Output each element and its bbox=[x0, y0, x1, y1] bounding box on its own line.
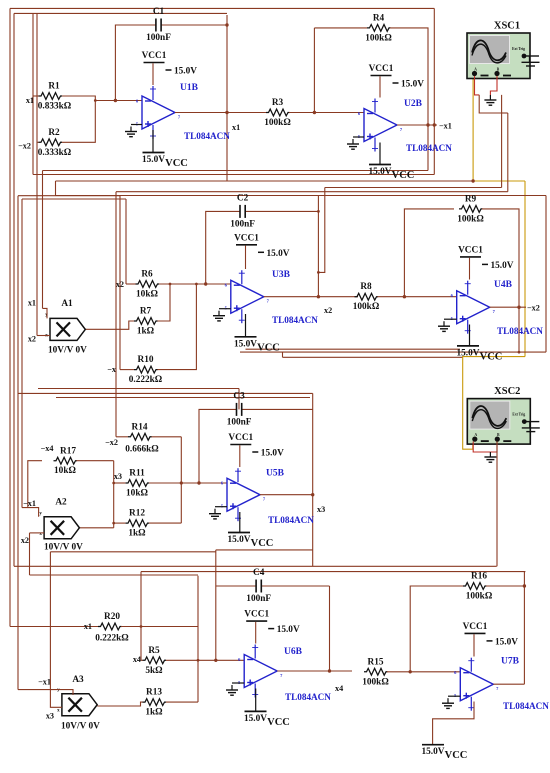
svg-text:TL084ACN: TL084ACN bbox=[268, 515, 314, 525]
wire rail y=357.3 bbox=[283, 356, 463, 358]
wire yellow drop x=525 bbox=[524, 181, 526, 357]
op-amp U3B bbox=[225, 270, 270, 323]
wire C4 left lead bbox=[216, 585, 256, 587]
svg-text:x3: x3 bbox=[114, 472, 122, 481]
svg-text:VCC1: VCC1 bbox=[234, 233, 259, 243]
wire A3 y input bbox=[18, 690, 73, 695]
wire right drop x=434 bbox=[433, 8, 435, 174]
svg-text:x1: x1 bbox=[28, 299, 36, 308]
svg-text:100nF: 100nF bbox=[230, 219, 255, 229]
resistor R4 bbox=[365, 13, 392, 43]
wire R17 right lead bbox=[77, 460, 114, 462]
wire R4 right to output bbox=[390, 28, 428, 171]
resistor R17 bbox=[54, 447, 77, 477]
svg-text:−x1: −x1 bbox=[38, 678, 51, 687]
svg-text:−x2: −x2 bbox=[18, 142, 31, 151]
multiplier A1 bbox=[45, 313, 85, 341]
ground U6B + input bbox=[226, 685, 238, 695]
svg-text:C1: C1 bbox=[153, 7, 165, 17]
ground below XSC1 bbox=[484, 95, 496, 105]
wire U3B output bbox=[264, 296, 358, 298]
svg-text:0.833kΩ: 0.833kΩ bbox=[38, 102, 72, 112]
wire A3 x input bbox=[50, 552, 62, 708]
svg-text:A: A bbox=[474, 433, 477, 437]
wire rail y=388.5 bbox=[38, 388, 239, 390]
wire A3 out to R13 bbox=[97, 702, 142, 706]
resistor R11 leads bbox=[114, 482, 126, 484]
svg-text:VCC: VCC bbox=[480, 351, 503, 362]
svg-text:15.0V: 15.0V bbox=[244, 714, 267, 724]
svg-text:VCC: VCC bbox=[267, 717, 290, 728]
resistor R5 leads bbox=[141, 659, 143, 661]
svg-text:−x2: −x2 bbox=[527, 304, 540, 313]
svg-text:100nF: 100nF bbox=[246, 594, 271, 604]
op-amp U2B bbox=[358, 99, 403, 152]
VCC1 supply for U1B bbox=[142, 51, 198, 77]
wire U1B output bbox=[175, 112, 266, 114]
ground U2B + input bbox=[347, 139, 359, 149]
wire input to U1B minus bbox=[95, 100, 142, 102]
op-amp U4B bbox=[451, 281, 496, 334]
wire A2 y input bbox=[22, 508, 39, 517]
wire R9 left drop bbox=[404, 209, 454, 297]
svg-text:U5B: U5B bbox=[266, 469, 285, 479]
wire XSC2 A to ground bbox=[473, 442, 490, 453]
wire drop x=198 bbox=[197, 576, 199, 702]
wire A1 y input bbox=[43, 308, 48, 318]
wire R5 to U6B minus bbox=[216, 659, 244, 661]
VCC supply for U6B bbox=[244, 711, 290, 728]
svg-text:R3: R3 bbox=[272, 98, 284, 108]
wire x2 drop to R6 bbox=[125, 199, 127, 284]
wire drop x=312.7 x3 feedback bbox=[312, 393, 314, 566]
op-amp U5B bbox=[221, 468, 266, 521]
oscilloscope XSC1 bbox=[467, 21, 540, 79]
svg-text:x2: x2 bbox=[21, 536, 29, 545]
VCC1 supply for U4B bbox=[458, 245, 514, 271]
svg-text:R14: R14 bbox=[131, 422, 147, 432]
wire left bundle x=37 bbox=[36, 13, 38, 335]
svg-text:1kΩ: 1kΩ bbox=[128, 529, 146, 539]
svg-text:VCC: VCC bbox=[257, 342, 280, 353]
resistor R7 leads bbox=[157, 284, 170, 321]
VCC1 supply for U2B bbox=[369, 64, 425, 90]
wire U6B output bbox=[277, 670, 352, 672]
wire XSC1 B to ground bbox=[490, 76, 497, 95]
wire ground stub U7B bbox=[448, 695, 460, 697]
svg-text:VCC1: VCC1 bbox=[369, 64, 394, 74]
wire R4 left drop bbox=[313, 28, 315, 113]
svg-text:100kΩ: 100kΩ bbox=[466, 592, 493, 602]
svg-text:15.0V: 15.0V bbox=[401, 80, 424, 90]
wire rail y=199 bbox=[22, 198, 126, 200]
svg-text:100kΩ: 100kΩ bbox=[264, 118, 291, 128]
multiplier A2 bbox=[39, 511, 79, 539]
wire rail y=566.3 bbox=[14, 565, 497, 567]
svg-text:U7B: U7B bbox=[501, 657, 520, 667]
wire U4B output bbox=[490, 306, 526, 308]
svg-text:R16: R16 bbox=[471, 572, 487, 582]
svg-text:x4: x4 bbox=[335, 684, 343, 693]
wire drop x=546 bbox=[545, 196, 547, 353]
wire XSC1 ground loop to drop bbox=[502, 112, 508, 114]
svg-text:R8: R8 bbox=[360, 282, 372, 292]
svg-text:A3: A3 bbox=[72, 675, 84, 685]
svg-text:100kΩ: 100kΩ bbox=[353, 302, 380, 312]
svg-text:R4: R4 bbox=[373, 13, 385, 23]
wire VCC1 stem U5B bbox=[239, 445, 241, 467]
svg-text:−x1: −x1 bbox=[439, 121, 452, 130]
wire A1 out to R7 bbox=[85, 321, 134, 329]
svg-text:Ext Trig: Ext Trig bbox=[512, 413, 525, 417]
svg-text:10V/V 0V: 10V/V 0V bbox=[61, 722, 100, 732]
svg-text:VCC1: VCC1 bbox=[458, 245, 483, 255]
resistor R16 bbox=[463, 572, 493, 602]
svg-text:15.0V: 15.0V bbox=[277, 625, 300, 635]
capacitor C2 bbox=[230, 193, 255, 229]
svg-text:100kΩ: 100kΩ bbox=[457, 214, 484, 224]
resistor R12 bbox=[126, 509, 149, 539]
svg-text:U4B: U4B bbox=[494, 280, 513, 290]
svg-text:0.222kΩ: 0.222kΩ bbox=[95, 634, 129, 644]
svg-text:XSC1: XSC1 bbox=[494, 21, 520, 32]
wire C4 right lead bbox=[261, 585, 329, 587]
wire VCC stem U2B bbox=[379, 143, 381, 165]
svg-text:x2: x2 bbox=[28, 335, 36, 344]
wire rail y=195.7 bbox=[18, 195, 120, 197]
wire R16 feedback vertical bbox=[523, 572, 525, 685]
wire C4 right drop bbox=[329, 586, 331, 671]
wire drop x=143.8 to R5 bbox=[140, 572, 142, 661]
wire drop x=501.6 XSC1 leg bbox=[501, 113, 503, 188]
wire U7B power down-route bbox=[433, 702, 474, 745]
svg-text:x4: x4 bbox=[133, 655, 141, 664]
wire left bundle x=22 bbox=[21, 199, 23, 508]
wire U4B output drop to rail bbox=[518, 307, 520, 352]
wire VCC stem U5B bbox=[239, 512, 241, 533]
svg-text:R2: R2 bbox=[48, 128, 60, 138]
wire yellow drop XSC1-A x=473.1 bbox=[472, 79, 474, 182]
svg-text:−x2: −x2 bbox=[105, 438, 118, 447]
svg-text:R9: R9 bbox=[465, 194, 477, 204]
svg-text:x3: x3 bbox=[46, 712, 54, 721]
VCC1 supply for U5B bbox=[228, 433, 284, 459]
svg-text:U1B: U1B bbox=[180, 83, 199, 93]
node input U1B junction bbox=[114, 99, 117, 102]
svg-text:R11: R11 bbox=[129, 469, 145, 479]
svg-text:x2: x2 bbox=[324, 306, 332, 315]
svg-text:R17: R17 bbox=[60, 447, 76, 457]
op-amp U1B bbox=[136, 86, 181, 139]
wire R16 left drop bbox=[410, 586, 463, 672]
wire C3 right lead bbox=[242, 408, 313, 410]
resistor R15 bbox=[362, 657, 389, 687]
resistor R14 bbox=[125, 422, 159, 454]
wire R4 left lead bbox=[314, 27, 367, 29]
wire U2B output bbox=[397, 124, 437, 126]
wire VCC1 stem U1B bbox=[152, 63, 154, 85]
svg-text:x1: x1 bbox=[84, 622, 92, 631]
VCC1 supply for U6B bbox=[244, 610, 300, 636]
resistor R3 bbox=[264, 98, 291, 128]
ground U5B + input bbox=[209, 509, 221, 519]
wire VCC stem U4B bbox=[469, 325, 471, 346]
wire ground stub U4B bbox=[444, 318, 457, 320]
wire VCC stem U6B bbox=[255, 689, 257, 712]
wire C1 right lead to x=227 bbox=[161, 24, 227, 26]
resistor R5 bbox=[143, 646, 166, 676]
wire VCC1 stem U2B bbox=[379, 76, 381, 97]
svg-text:10kΩ: 10kΩ bbox=[136, 290, 158, 300]
svg-text:A: A bbox=[474, 68, 477, 72]
svg-text:TL084ACN: TL084ACN bbox=[285, 692, 331, 702]
svg-text:R10: R10 bbox=[137, 355, 153, 365]
wire rail y=549.9 bbox=[216, 549, 313, 551]
svg-text:15.0V: 15.0V bbox=[174, 67, 197, 77]
VCC supply for U5B bbox=[228, 533, 274, 550]
capacitor C3 bbox=[227, 391, 252, 427]
svg-text:XSC2: XSC2 bbox=[494, 386, 520, 397]
wire rail y=170.5 bbox=[43, 170, 429, 172]
VCC1 supply for U3B bbox=[234, 233, 290, 258]
svg-text:VCC1: VCC1 bbox=[463, 622, 488, 632]
wire -x4 elbow to R17 bbox=[28, 461, 42, 508]
resistor R13 leads bbox=[166, 701, 199, 703]
svg-text:0.666kΩ: 0.666kΩ bbox=[125, 444, 159, 454]
svg-text:U3B: U3B bbox=[272, 270, 291, 280]
wire -x2 drop to R14 bbox=[115, 192, 117, 437]
VCC supply for U2B bbox=[369, 165, 415, 182]
wire A2 x input bbox=[30, 532, 45, 534]
svg-text:10kΩ: 10kΩ bbox=[126, 489, 148, 499]
svg-text:VCC: VCC bbox=[392, 170, 415, 181]
wire XSC2 B drop to rail bbox=[496, 442, 498, 567]
VCC supply for U4B bbox=[457, 346, 503, 363]
wire rail y=571.6 bbox=[141, 571, 525, 573]
svg-text:100kΩ: 100kΩ bbox=[362, 677, 389, 687]
svg-text:R13: R13 bbox=[146, 688, 162, 698]
wire R9 right to output bbox=[482, 209, 519, 307]
svg-text:VCC: VCC bbox=[165, 158, 188, 169]
wire VCC stem U3B bbox=[245, 314, 247, 337]
wire R20 right lead bbox=[121, 626, 198, 628]
svg-text:C3: C3 bbox=[233, 391, 245, 401]
resistor R10 bbox=[129, 355, 163, 385]
wire x=113.7 vertical R17/R11/R12/A2 bbox=[113, 461, 115, 528]
svg-text:R15: R15 bbox=[367, 657, 383, 667]
svg-text:15.0V: 15.0V bbox=[491, 261, 514, 271]
wire R8 to U4B minus bbox=[378, 296, 457, 298]
resistor R7 bbox=[134, 307, 157, 337]
wire U1B output vertical x=227 bbox=[226, 15, 228, 181]
VCC supply for U7B bbox=[422, 745, 468, 762]
wire ground stub U3B bbox=[219, 308, 231, 310]
svg-text:TL084ACN: TL084ACN bbox=[503, 701, 549, 711]
wire x1 line to R20 bbox=[10, 626, 98, 628]
wire -x drop to R10 bbox=[119, 196, 121, 370]
wire ground stub U6B bbox=[232, 682, 244, 684]
wire VCC1 stem U3B bbox=[245, 246, 247, 269]
wire left bundle x=18 bbox=[17, 196, 19, 690]
svg-text:−x4: −x4 bbox=[41, 444, 54, 453]
svg-text:15.0V: 15.0V bbox=[495, 637, 518, 647]
svg-text:−x1: −x1 bbox=[23, 499, 36, 508]
wire R3 to U2B minus bbox=[289, 112, 364, 114]
svg-text:10V/V 0V: 10V/V 0V bbox=[48, 346, 87, 356]
svg-text:VCC: VCC bbox=[251, 538, 274, 549]
svg-text:Ext Trig: Ext Trig bbox=[512, 47, 525, 51]
svg-text:R12: R12 bbox=[129, 509, 145, 519]
ground U7B + input bbox=[442, 698, 454, 708]
svg-text:100nF: 100nF bbox=[227, 417, 252, 427]
svg-text:15.0V: 15.0V bbox=[369, 167, 392, 177]
wire yellow elbow to XSC2-A bbox=[463, 357, 525, 450]
wire XSC1 A terminal red stub bbox=[475, 76, 480, 95]
svg-text:15.0V: 15.0V bbox=[422, 747, 445, 757]
wire ground stub U1B bbox=[131, 124, 142, 126]
svg-text:A2: A2 bbox=[55, 498, 67, 508]
svg-text:x3: x3 bbox=[317, 505, 325, 514]
svg-text:R6: R6 bbox=[141, 270, 153, 280]
wire drop x=55.5 upper bbox=[55, 181, 57, 196]
svg-text:R1: R1 bbox=[48, 82, 60, 92]
VCC supply for U3B bbox=[234, 337, 280, 354]
resistor R6 leads bbox=[126, 283, 136, 285]
svg-text:R20: R20 bbox=[104, 612, 120, 622]
svg-text:TL084ACN: TL084ACN bbox=[406, 143, 452, 153]
capacitor C4 bbox=[246, 568, 271, 604]
wire VCC1 stem U4B bbox=[469, 258, 471, 280]
resistor R20 bbox=[95, 612, 129, 644]
svg-text:VCC1: VCC1 bbox=[244, 610, 269, 620]
wire rail y=397.5 bbox=[56, 397, 310, 399]
wire XSC2 B to ground bbox=[490, 442, 497, 453]
wire R16 right lead bbox=[486, 585, 524, 587]
resistor R8 bbox=[353, 282, 380, 312]
wire x2 vertical (rail to output) bbox=[317, 196, 319, 297]
ground U3B + input bbox=[213, 311, 225, 321]
wire VCC stem U1B bbox=[152, 130, 154, 153]
resistor R13 bbox=[143, 688, 166, 718]
wire left bundle x=10 bbox=[9, 8, 11, 626]
svg-text:C4: C4 bbox=[253, 568, 265, 578]
resistor R6 bbox=[136, 270, 159, 300]
wire ground stub U5B bbox=[215, 506, 227, 508]
svg-text:10kΩ: 10kΩ bbox=[54, 466, 76, 476]
wire U7B output bbox=[493, 683, 524, 685]
wire rail y=575.7 bbox=[30, 574, 199, 576]
wire C2 left lead bbox=[206, 211, 240, 284]
svg-text:VCC: VCC bbox=[445, 750, 468, 761]
wire R9 top rail bbox=[403, 195, 405, 197]
wire drop x=239 to C3 bbox=[238, 389, 240, 410]
wire rail y=181 yellow part bbox=[473, 180, 525, 182]
op-amp U6B bbox=[238, 645, 283, 698]
wire rail y=174.5 bbox=[33, 174, 434, 176]
VCC1 supply for U7B bbox=[463, 622, 519, 648]
wire VCC1 stem U6B bbox=[255, 622, 257, 644]
svg-text:5kΩ: 5kΩ bbox=[145, 666, 163, 676]
resistor R11 bbox=[126, 469, 149, 499]
wire rail y=195.5 bbox=[56, 195, 547, 197]
wire rail y=181 brown part bbox=[56, 180, 474, 182]
wire A2 out to R12 bbox=[79, 527, 113, 529]
wire drop x=215.8 bbox=[215, 550, 217, 660]
wire C1 left lead to input node bbox=[115, 25, 155, 101]
svg-text:15.0V: 15.0V bbox=[261, 449, 284, 459]
ground U4B + input bbox=[438, 321, 450, 331]
svg-text:x1: x1 bbox=[232, 123, 240, 132]
svg-text:0.333kΩ: 0.333kΩ bbox=[38, 148, 72, 158]
svg-text:100kΩ: 100kΩ bbox=[365, 33, 392, 43]
svg-text:R5: R5 bbox=[148, 646, 160, 656]
ground U1B + input bbox=[125, 127, 137, 137]
wire XSC1 ground loop box bbox=[479, 95, 501, 113]
resistor R10 leads bbox=[120, 369, 134, 371]
svg-text:C2: C2 bbox=[237, 193, 249, 203]
resistor R9 bbox=[457, 194, 484, 224]
svg-text:0.222kΩ: 0.222kΩ bbox=[129, 375, 163, 385]
wire C2 right lead bbox=[245, 210, 318, 212]
svg-text:100nF: 100nF bbox=[146, 33, 171, 43]
svg-text:15.0V: 15.0V bbox=[267, 249, 290, 259]
svg-text:1kΩ: 1kΩ bbox=[137, 327, 155, 337]
resistor R14 leads bbox=[116, 436, 128, 438]
multiplier A3 bbox=[57, 688, 97, 716]
wire U5B output bbox=[260, 494, 313, 496]
wire R15 to U7B minus bbox=[387, 671, 460, 673]
wire left bundle x=14 bbox=[13, 13, 15, 566]
svg-text:TL084ACN: TL084ACN bbox=[272, 315, 318, 325]
svg-text:TL084ACN: TL084ACN bbox=[184, 131, 230, 141]
wire C3 left lead bbox=[199, 409, 237, 483]
VCC supply for U1B bbox=[142, 153, 188, 170]
svg-text:VCC1: VCC1 bbox=[228, 433, 253, 443]
wire x2 T vertical x=324.8 bbox=[318, 188, 324, 273]
wire drop x=507.8 XSC1 leg bbox=[507, 113, 509, 192]
ground below XSC2 bbox=[484, 452, 496, 462]
resistor R2 bbox=[38, 128, 72, 158]
svg-text:U6B: U6B bbox=[284, 647, 303, 657]
capacitor C1 bbox=[146, 7, 171, 43]
svg-text:10V/V 0V: 10V/V 0V bbox=[44, 543, 83, 553]
wire top rail y=8.4 bbox=[10, 7, 434, 9]
wire ground stub U2B bbox=[353, 136, 364, 138]
resistor R12 leads bbox=[149, 522, 182, 524]
svg-text:15.0V: 15.0V bbox=[234, 339, 257, 349]
svg-text:1kΩ: 1kΩ bbox=[145, 708, 163, 718]
resistor R1 bbox=[38, 82, 72, 112]
wire left bundle x=42.5 bbox=[42, 171, 44, 309]
wire summing vertical x=181.3 bbox=[180, 437, 182, 523]
resistor R2 leads bbox=[37, 141, 39, 143]
wire rail y=393.4 bbox=[18, 392, 313, 394]
svg-text:R7: R7 bbox=[140, 307, 152, 317]
wire VCC1 stem U7B bbox=[473, 634, 475, 656]
wire rail y=352.1 bbox=[240, 351, 546, 353]
resistor R1 leads bbox=[33, 95, 39, 97]
wire rail y=349.2 bbox=[246, 348, 461, 350]
svg-text:15.0V: 15.0V bbox=[457, 348, 480, 358]
svg-text:U2B: U2B bbox=[404, 99, 423, 109]
svg-text:15.0V: 15.0V bbox=[228, 535, 251, 545]
svg-text:VCC1: VCC1 bbox=[142, 51, 167, 61]
wire A1 x input bbox=[37, 335, 50, 337]
oscilloscope XSC2 bbox=[467, 386, 540, 444]
svg-text:A1: A1 bbox=[61, 299, 73, 309]
svg-text:15.0V: 15.0V bbox=[142, 155, 165, 165]
wire top rail y=13.4 bbox=[14, 12, 227, 14]
